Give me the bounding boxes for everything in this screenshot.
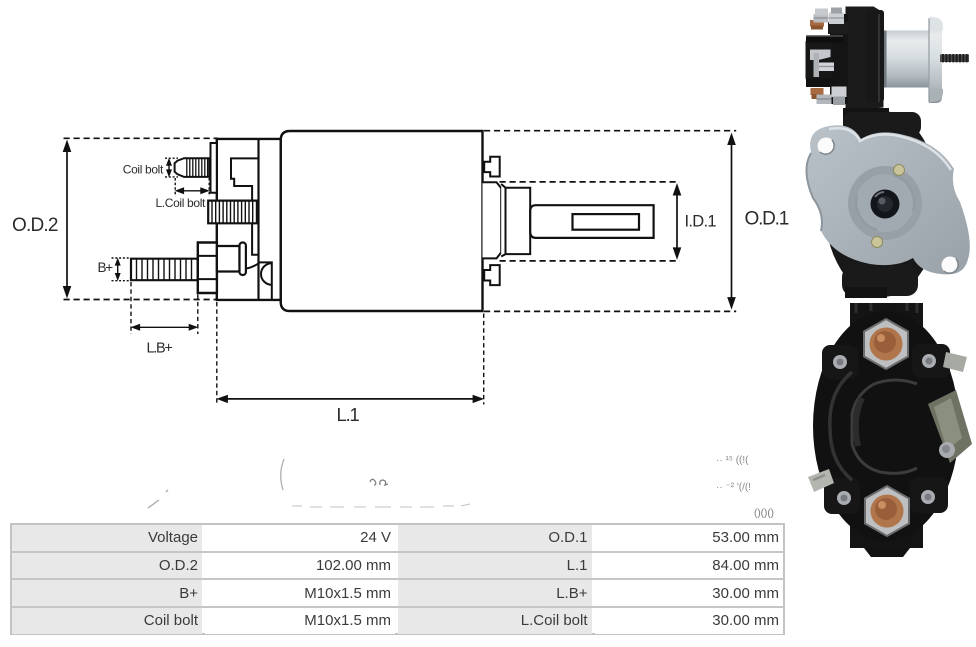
shaft collar xyxy=(501,184,530,257)
B+ dim bracket xyxy=(112,258,131,281)
svg-text:·· ⁻² '(/(!: ·· ⁻² '(/(! xyxy=(716,482,751,493)
L.B+ arrow xyxy=(134,326,195,328)
L.Coil bolt extension dashes xyxy=(175,178,209,197)
faint stamp marks right xyxy=(716,455,774,519)
photo3 top stud hex nut xyxy=(864,319,908,369)
svg-text:·· ¹⁵ ((!(: ·· ¹⁵ ((!( xyxy=(716,455,749,466)
photo2 plate holes xyxy=(818,138,835,155)
plunger pocket ledge xyxy=(259,262,272,300)
photo3 left zinc hook xyxy=(808,469,834,492)
drive rod xyxy=(530,205,653,238)
photo2 black body xyxy=(824,111,940,297)
svg-text:L.1: L.1 xyxy=(337,404,360,425)
svg-text:Coil bolt: Coil bolt xyxy=(123,163,164,177)
svg-text:L.B+: L.B+ xyxy=(146,341,172,357)
photo2 hub xyxy=(871,190,900,219)
O.D.1 arrow xyxy=(731,141,733,301)
photo 1: solenoid with chrome cylinder xyxy=(806,7,970,109)
I.D.1 dashed lines xyxy=(500,182,680,261)
mounting tab bottom (cylinder right) xyxy=(484,265,500,285)
spring seat bump xyxy=(261,263,272,285)
threaded bushing L.Coil xyxy=(208,201,257,224)
photo2 screws xyxy=(894,165,905,176)
svg-text:O.D.2: O.D.2 xyxy=(12,215,58,236)
specification table xyxy=(10,523,785,635)
photo3 small screws xyxy=(833,355,847,369)
shaft flange xyxy=(483,182,502,258)
coil bolt mount tab xyxy=(211,143,217,193)
photo1 left cap xyxy=(806,37,833,85)
L.Coil bolt arrow xyxy=(178,190,206,192)
watermark scribbles xyxy=(148,459,470,508)
photo3 bottom bracket xyxy=(850,522,923,548)
coil bolt xyxy=(175,158,210,177)
svg-text:O.D.1: O.D.1 xyxy=(745,209,789,230)
photo1 black housing xyxy=(846,7,884,109)
B+ bolt xyxy=(131,259,198,281)
photo3 body xyxy=(813,311,959,541)
photo1 top hardware xyxy=(810,20,824,27)
svg-text:L.Coil bolt: L.Coil bolt xyxy=(155,196,206,210)
L.B+ extension dashes xyxy=(131,282,198,334)
photo2 aluminum plate xyxy=(806,125,970,274)
L.1 extension dashes xyxy=(217,302,484,405)
photo3 body sheen xyxy=(830,372,852,480)
O.D.1 dashed lines xyxy=(484,131,736,312)
mounting tab top (cylinder right) xyxy=(484,157,500,177)
L.1 arrow xyxy=(221,398,480,400)
svg-text:I.D.1: I.D.1 xyxy=(685,213,717,231)
solenoid cylinder body xyxy=(281,131,483,311)
photo3 right metal bracket xyxy=(928,390,972,463)
rod slot xyxy=(573,214,640,230)
O.D.2 dimension arrow xyxy=(66,148,68,290)
photo 2: end view with aluminum plate xyxy=(806,108,970,298)
photo1 inner silver linkage xyxy=(810,50,831,61)
hex nut B+ xyxy=(198,243,217,294)
photo1 threaded stud xyxy=(940,54,969,62)
I.D.1 arrow xyxy=(676,191,678,252)
photo3 corner ears xyxy=(822,345,858,379)
plunger rod xyxy=(217,246,240,272)
O.D.2 top dashed extension line xyxy=(64,137,219,139)
bracket inner wall below bushing xyxy=(252,223,258,254)
photo1 chrome cylinder xyxy=(884,31,931,88)
photo 3: black solenoid front view xyxy=(808,303,972,557)
Coil bolt dim bracket xyxy=(165,158,178,177)
photo3 top bracket xyxy=(850,303,923,329)
O.D.2 bottom dashed extension line xyxy=(64,299,219,301)
photo1 chrome flange xyxy=(929,20,942,103)
plunger pocket fillet xyxy=(246,263,260,269)
front bracket housing xyxy=(217,139,281,300)
svg-text:()()(): ()()() xyxy=(754,508,774,519)
photo2 center boss xyxy=(848,166,922,240)
bracket interior staircase xyxy=(231,158,259,200)
bracket inner right edge xyxy=(257,139,259,300)
svg-text:B+: B+ xyxy=(98,260,114,275)
photo1 bottom hardware xyxy=(811,88,824,95)
plunger washer xyxy=(240,243,246,276)
photo3 bottom stud hex nut xyxy=(865,486,909,536)
photo1 seam shadow xyxy=(884,31,887,88)
photo3 right zinc tab xyxy=(943,352,967,372)
